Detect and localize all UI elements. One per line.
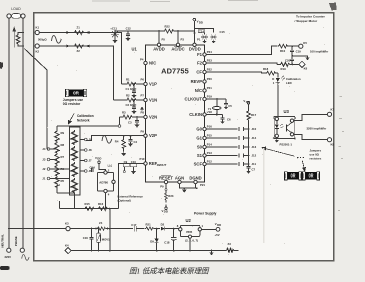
capacitor C7	[247, 164, 256, 173]
svg-text:REVP: REVP	[191, 79, 203, 84]
wire CLKIN to crystal	[206, 114, 222, 116]
voltage waveform	[102, 136, 112, 144]
power VDD reset	[162, 205, 168, 214]
svg-text:Z1: Z1	[77, 25, 81, 29]
load terminals	[7, 14, 25, 19]
ground V2N aux	[141, 107, 144, 110]
arrow to SMD icons	[302, 161, 305, 171]
svg-text:J14: J14	[252, 136, 257, 140]
svg-text:V2N: V2N	[149, 115, 157, 120]
svg-text:P9: P9	[141, 129, 145, 133]
SMD zero-ohm resistor icon left	[65, 89, 86, 96]
SMD zero-ohm resistor icon right A	[285, 172, 302, 180]
mains waveform	[22, 255, 29, 261]
svg-text:C15: C15	[220, 30, 226, 34]
svg-text:C7: C7	[252, 168, 256, 172]
capacitor C12	[126, 27, 132, 41]
capacitor C14 at U4	[90, 165, 96, 172]
ground opto	[275, 138, 278, 142]
svg-text:RESET: RESET	[159, 175, 173, 180]
svg-text:P4: P4	[140, 58, 144, 62]
svg-text:F2: F2	[197, 61, 203, 66]
jumper J13	[206, 145, 256, 149]
terminal K3	[65, 221, 70, 230]
svg-text:NEUTRAL: NEUTRAL	[0, 234, 4, 248]
pin CLKIN right	[189, 110, 212, 117]
svg-text:C4: C4	[134, 140, 138, 144]
scan artifact left edge upper	[0, 62, 3, 69]
svg-text:P15: P15	[207, 133, 212, 137]
pin N/C right	[195, 86, 212, 93]
wire AGND DGND tie	[180, 184, 198, 189]
capacitor C3	[128, 116, 139, 127]
wire network bottom to reference row	[60, 195, 75, 209]
pin DGND	[189, 175, 205, 187]
svg-text:Z2: Z2	[77, 49, 81, 53]
pin F1 right	[197, 50, 212, 57]
svg-text:R19: R19	[281, 67, 287, 71]
svg-text:R22: R22	[165, 25, 171, 29]
wire network output to V2P	[86, 136, 95, 141]
ground output filter	[292, 56, 309, 60]
svg-text:C2 33nF: C2 33nF	[126, 103, 137, 107]
svg-text:R5: R5	[61, 179, 65, 183]
svg-text:P7: P7	[141, 94, 145, 98]
resistor R19	[277, 63, 300, 72]
capacitor C6	[221, 115, 231, 124]
node Z1 right arrow	[86, 31, 90, 34]
svg-text:R16: R16	[98, 202, 104, 206]
svg-text:N/C: N/C	[195, 88, 202, 93]
svg-text:J11: J11	[252, 162, 257, 166]
svg-text:P22: P22	[207, 67, 212, 71]
svg-text:Z4: Z4	[99, 221, 103, 225]
svg-text:R7: R7	[61, 155, 65, 159]
pin AC/DC	[171, 38, 184, 52]
svg-text:CLKOUT: CLKOUT	[185, 97, 203, 102]
pin CF right	[196, 67, 212, 74]
terminal K5	[299, 41, 308, 49]
svg-text:图1 低成本电能表原理图: 图1 低成本电能表原理图	[129, 267, 210, 276]
node AVDD rail	[158, 30, 160, 32]
svg-text:J10: J10	[252, 127, 257, 131]
svg-text:P14: P14	[207, 142, 212, 146]
resistor R21	[145, 222, 160, 230]
capacitor C4	[128, 135, 137, 146]
capacitor C11 electrolytic	[110, 27, 119, 43]
label jumpers note left	[63, 98, 84, 106]
svg-text:C18: C18	[164, 240, 170, 244]
capacitor C1	[126, 83, 137, 97]
svg-text:R15: R15	[85, 202, 91, 206]
wire V2P feed	[95, 135, 144, 137]
svg-text:C16: C16	[83, 236, 89, 240]
svg-text:D2: D2	[161, 222, 165, 226]
resistor R4 divider leg	[115, 135, 126, 156]
label calibration LED	[286, 77, 301, 85]
jumper J12	[206, 154, 256, 158]
svg-text:V2P: V2P	[149, 133, 157, 138]
svg-text:P6: P6	[141, 78, 145, 82]
node tap K3	[109, 228, 111, 230]
svg-text:DD: DD	[164, 210, 168, 214]
svg-text:DVDD: DVDD	[189, 46, 201, 51]
svg-text:P9: P9	[160, 185, 164, 189]
capacitor C20	[285, 56, 294, 65]
wire CLKOUT to crystal	[206, 98, 226, 100]
terminal VDD out	[215, 222, 222, 237]
scan speckle noise	[47, 27, 325, 255]
arrow to calibration network	[68, 114, 74, 124]
svg-text:P20: P20	[207, 77, 212, 81]
resistor R23 on RESET	[165, 184, 174, 203]
wire AC/DC drop	[177, 31, 179, 43]
svg-text:R9: R9	[61, 131, 65, 135]
terminal K6	[299, 61, 308, 70]
svg-text:J4: J4	[42, 147, 46, 151]
capacitor C15	[210, 30, 225, 43]
svg-text:To Impulse Counter: To Impulse Counter	[296, 15, 326, 19]
optocoupler U3 PS2501	[273, 115, 297, 140]
svg-text:CLKIN: CLKIN	[189, 112, 202, 117]
wire K2 to V1N filter	[39, 46, 113, 100]
svg-text:P12: P12	[207, 159, 212, 163]
svg-text:G1: G1	[196, 136, 202, 141]
svg-text:AGN: AGN	[175, 175, 184, 180]
svg-text:P5: P5	[162, 38, 166, 42]
label external reference	[118, 195, 144, 203]
svg-text:AD780: AD780	[99, 181, 108, 185]
pin V2P	[141, 129, 158, 138]
svg-text:DGND: DGND	[189, 175, 201, 180]
svg-text:G0: G0	[196, 127, 202, 132]
pin V2N	[141, 111, 158, 120]
node R16 tap	[109, 208, 111, 210]
svg-text:J7: J7	[89, 159, 93, 163]
svg-text:K1: K1	[36, 26, 40, 30]
svg-text:K5: K5	[303, 41, 307, 45]
ferrite Z4	[97, 221, 106, 231]
svg-text:F1: F1	[197, 52, 203, 57]
node D9 top	[156, 228, 158, 230]
wire opto to K8	[294, 134, 328, 139]
op-amp U4 AD780 box	[98, 164, 116, 208]
svg-text:C9: C9	[124, 160, 128, 164]
resistor R15	[84, 202, 94, 211]
terminal K4	[65, 243, 71, 253]
wire K4 rail	[71, 250, 227, 252]
node Z2 right arrow	[86, 45, 90, 48]
SMD zero-ohm resistor icon right B	[303, 172, 320, 180]
resistor R2	[114, 94, 144, 102]
capacitor C5	[224, 99, 232, 109]
scan streak	[263, 148, 264, 243]
svg-text:Z3: Z3	[228, 242, 232, 246]
svg-text:S0: S0	[197, 145, 203, 150]
svg-text:K6: K6	[304, 66, 308, 70]
resistor R16	[98, 202, 108, 211]
svg-text:U2: U2	[186, 218, 192, 223]
svg-text:V1P: V1P	[149, 82, 157, 87]
power VDD for U4	[95, 156, 106, 172]
wire F1 output	[206, 46, 277, 54]
capacitor C19	[290, 46, 301, 56]
crystal Y1	[208, 99, 221, 115]
svg-text:DD: DD	[217, 223, 221, 227]
pin S1 right	[197, 151, 212, 158]
capacitor C17	[131, 223, 144, 231]
svg-text:C19: C19	[296, 49, 302, 53]
scan noise top edge	[92, 0, 258, 2]
wire divider tap vertical	[109, 209, 111, 251]
schematic frame	[34, 13, 334, 261]
svg-text:(Optional): (Optional)	[118, 199, 131, 203]
svg-text:S1: S1	[197, 153, 203, 158]
pin G1 right	[196, 133, 212, 140]
label calibration network	[77, 114, 94, 122]
wire LED to opto	[277, 82, 279, 117]
resistor R1	[122, 78, 144, 86]
terminal NEUTRAL	[7, 248, 11, 252]
svg-text:R10: R10	[280, 49, 286, 53]
svg-text:J1: J1	[42, 177, 46, 181]
svg-text:C1 33nF: C1 33nF	[126, 87, 137, 91]
ferrite Z2	[74, 44, 84, 53]
node C18 top	[173, 228, 175, 230]
diode D9	[150, 229, 159, 252]
diode D2	[161, 222, 181, 230]
svg-text:+5V: +5V	[215, 233, 220, 237]
node K5 junction	[291, 45, 293, 47]
svg-text:R11: R11	[70, 169, 75, 173]
jumper J14	[206, 136, 256, 140]
ground analog digital	[183, 188, 186, 192]
pin AVDD	[153, 38, 165, 52]
svg-text:J3: J3	[42, 158, 46, 162]
svg-text:R23: R23	[168, 194, 174, 198]
svg-text:C14: C14	[90, 165, 96, 169]
wire regulator output	[202, 228, 217, 230]
terminal K1	[35, 30, 39, 34]
svg-text:+C11: +C11	[110, 27, 117, 31]
pin V1P	[141, 78, 158, 87]
LED D1	[272, 73, 284, 85]
svg-text:R18: R18	[263, 67, 269, 71]
svg-text:N/C: N/C	[149, 61, 156, 66]
svg-text:LED: LED	[286, 81, 292, 85]
svg-text:PS2501-1: PS2501-1	[280, 143, 293, 147]
svg-text:AD7755: AD7755	[161, 67, 189, 76]
wire K1 to V1P filter	[39, 33, 121, 85]
pin DVDD	[189, 38, 201, 52]
pin REF in/out	[140, 157, 167, 167]
capacitor C10 jumper	[130, 160, 136, 173]
pin AGND	[175, 175, 184, 183]
svg-text:220V: 220V	[5, 255, 12, 259]
svg-text:Calibration: Calibration	[77, 114, 94, 118]
power VDD top	[193, 18, 203, 24]
svg-text:P24: P24	[207, 50, 212, 54]
svg-text:U1: U1	[132, 47, 138, 52]
resistor R18	[263, 67, 278, 75]
svg-text:0Ω resistor: 0Ω resistor	[63, 102, 81, 106]
svg-text:IN/OUT: IN/OUT	[157, 163, 167, 167]
svg-text:R8: R8	[61, 143, 65, 147]
wire phase vertical	[22, 18, 24, 248]
pin N/C left	[140, 58, 156, 66]
svg-text:K4: K4	[65, 243, 69, 247]
svg-text:R2: R2	[126, 94, 130, 98]
capacitor C9 jumper	[123, 160, 129, 172]
svg-text:R17: R17	[251, 113, 257, 117]
resistor R22	[159, 25, 194, 33]
terminal K8	[327, 138, 334, 147]
svg-text:D9: D9	[150, 240, 154, 244]
capacitor C16	[83, 228, 94, 252]
svg-text:C12: C12	[126, 27, 132, 31]
svg-text:C5: C5	[228, 104, 232, 108]
svg-text:K3: K3	[65, 221, 69, 225]
wire K3 line	[70, 228, 96, 230]
wire REF vertical	[119, 164, 144, 209]
svg-text:R21: R21	[146, 222, 152, 226]
svg-text:P8: P8	[141, 111, 145, 115]
node K4 tap	[109, 250, 111, 252]
svg-text:P1: P1	[197, 38, 201, 42]
svg-text:MOV1: MOV1	[102, 238, 110, 242]
terminal K7	[327, 108, 334, 117]
svg-text:R12: R12	[70, 153, 76, 157]
wire DVDD decoupling branch	[194, 29, 213, 33]
calibration network ladder	[42, 126, 118, 195]
svg-text:3200 imp/kWhr: 3200 imp/kWhr	[307, 126, 328, 130]
svg-text:/ Stepper Motor: / Stepper Motor	[295, 19, 318, 23]
svg-text:R3: R3	[122, 111, 126, 115]
node K6 junction	[291, 63, 293, 65]
wire neutral vertical	[8, 18, 10, 248]
svg-text:P10: P10	[140, 157, 145, 161]
terminal PHASE	[20, 248, 24, 252]
svg-text:Y1: Y1	[208, 107, 212, 111]
arrow to jumper column	[262, 147, 294, 156]
pin RESET	[159, 175, 173, 188]
shunt resistor	[16, 33, 23, 47]
svg-text:J13: J13	[252, 145, 257, 149]
svg-text:J8: J8	[89, 148, 93, 152]
svg-text:U3: U3	[284, 109, 290, 114]
node neutral junction	[8, 228, 10, 230]
label to impulse counter	[295, 15, 326, 23]
pin F2 right	[197, 58, 212, 65]
resistor R17	[247, 106, 257, 164]
node Z4 left	[95, 228, 97, 230]
svg-text:C20: C20	[285, 58, 291, 62]
svg-text:C10: C10	[131, 160, 137, 164]
svg-text:(2, 3, 6, 7): (2, 3, 6, 7)	[185, 238, 198, 242]
svg-text:P3: P3	[181, 38, 185, 42]
svg-text:DD: DD	[97, 157, 101, 161]
svg-text:K2: K2	[36, 50, 40, 54]
svg-text:SCF: SCF	[194, 162, 203, 167]
pin CLKOUT right	[185, 94, 213, 101]
resistor R3	[118, 111, 144, 128]
terminal K2	[35, 44, 39, 48]
wire AVDD decoupling rail	[115, 31, 159, 43]
jumper J11	[206, 162, 256, 166]
node shunt top	[22, 32, 24, 34]
wire K3 to C17	[106, 228, 134, 230]
svg-text:V1N: V1N	[149, 98, 157, 103]
node Z4 right	[107, 228, 109, 230]
node AC/DC rail	[177, 30, 179, 32]
svg-text:J2: J2	[42, 167, 46, 171]
pin S0 right	[197, 142, 212, 149]
label jumpers note right	[310, 148, 322, 160]
node C19 C20 midpoint	[291, 55, 293, 57]
svg-text:K7: K7	[331, 108, 335, 112]
wire F2 output	[206, 63, 277, 64]
svg-text:100 imp/kWhr: 100 imp/kWhr	[310, 49, 329, 53]
current arrow	[13, 28, 16, 48]
wire opto to K7	[294, 114, 328, 120]
svg-text:resistors: resistors	[310, 156, 322, 160]
svg-text:DD: DD	[199, 20, 203, 24]
svg-text:P21: P21	[200, 183, 205, 187]
node DVDD rail	[193, 32, 195, 34]
scan artifact left edge lower	[0, 266, 10, 270]
svg-text:CF: CF	[196, 70, 202, 75]
svg-text:PHASE: PHASE	[14, 236, 18, 246]
svg-text:P13: P13	[207, 151, 212, 155]
svg-text:AC/DC: AC/DC	[171, 46, 184, 51]
pin V1N	[141, 94, 158, 103]
scan noise right margin	[338, 96, 344, 211]
node shunt bottom	[22, 45, 24, 47]
pin REVP right	[191, 77, 213, 84]
IC U1 AD7755 body	[146, 45, 205, 182]
varistor MOV1	[97, 228, 111, 252]
svg-text:R4: R4	[115, 139, 119, 143]
power VDD pullup	[243, 99, 249, 106]
ground supply rail	[210, 250, 213, 255]
wire VDD to DVDD	[193, 23, 195, 43]
capacitor C14 electrolytic	[198, 29, 208, 43]
jumper J10	[206, 127, 256, 131]
svg-text:AVDD: AVDD	[153, 46, 165, 51]
node crystal top	[216, 98, 218, 100]
pin G0 right	[196, 124, 212, 131]
svg-text:P16: P16	[207, 124, 212, 128]
capacitor C2	[126, 99, 137, 113]
svg-text:R13: R13	[70, 137, 76, 141]
wire CF output	[206, 72, 265, 73]
wire reference row	[60, 208, 119, 210]
svg-text:P23: P23	[207, 58, 212, 62]
svg-text:R1: R1	[126, 78, 130, 82]
svg-text:Network: Network	[77, 118, 90, 122]
svg-text:J12: J12	[252, 154, 257, 158]
svg-text:DD: DD	[246, 100, 250, 104]
svg-text:LOAD: LOAD	[11, 7, 21, 11]
capacitor C18 electrolytic	[164, 229, 176, 252]
node crystal bottom	[216, 114, 218, 116]
svg-text:C6: C6	[227, 118, 231, 122]
wire diagonal from shunt to divider	[24, 49, 47, 150]
resistor R10	[278, 44, 299, 53]
ferrite Z3	[227, 242, 239, 252]
pin SCF right	[194, 159, 213, 166]
node Z2 left arrow	[67, 45, 71, 48]
